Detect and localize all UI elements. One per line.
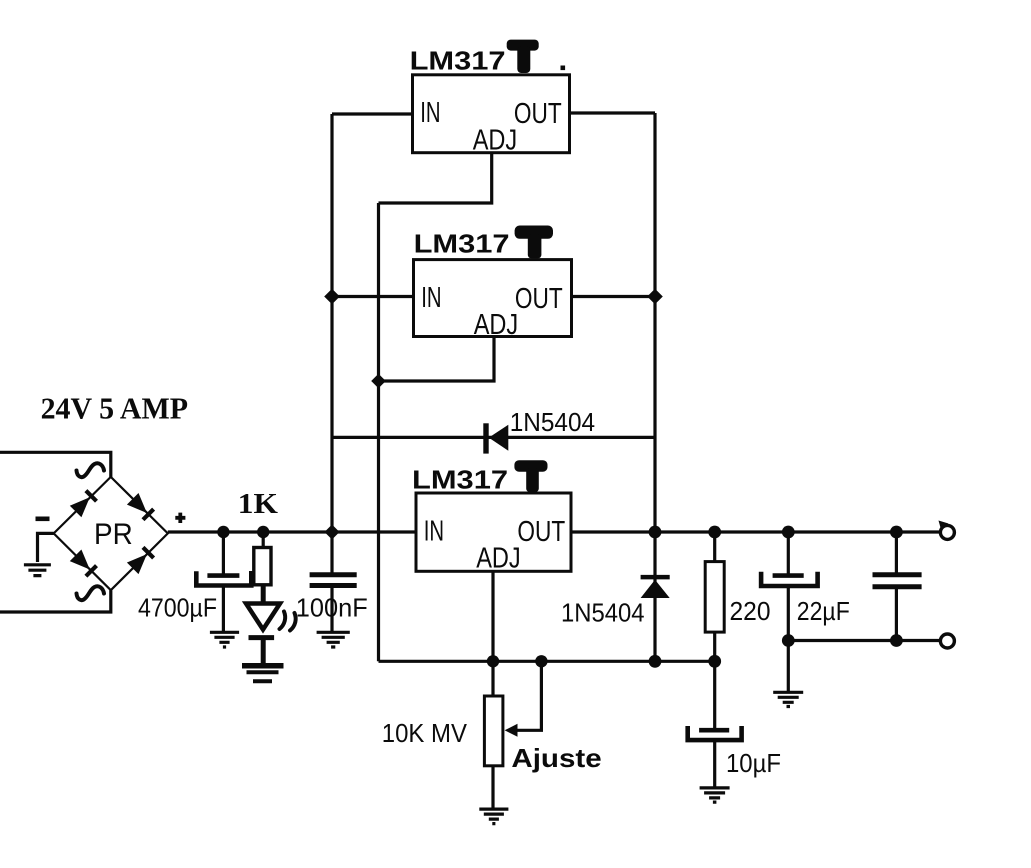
AC squiggle top xyxy=(77,463,105,477)
wire output cap bottom lead xyxy=(895,588,898,641)
resistor R2 220 body xyxy=(705,562,724,633)
icon TO-220 U3 xyxy=(514,460,547,492)
LED arrows xyxy=(280,612,296,631)
wire pot wiper to ADJ rail xyxy=(514,661,541,730)
wire ADJ bottom rail xyxy=(379,660,715,663)
ground (4700uF) xyxy=(210,632,239,647)
wire ADJ trunk vertical xyxy=(377,203,380,661)
wire 22uF top lead xyxy=(787,532,790,574)
wire U1 IN lead xyxy=(332,112,413,115)
diode bridge lower-right xyxy=(127,547,154,574)
potentiometer wiper arrow xyxy=(505,724,518,737)
wire diode D1 row xyxy=(333,436,655,439)
svg-text:100nF: 100nF xyxy=(296,593,368,623)
svg-text:10µF: 10µF xyxy=(726,748,781,778)
diode bridge upper-left xyxy=(70,491,97,518)
potentiometer RV1 10K body xyxy=(484,696,503,766)
capacitor C1 4700uF xyxy=(196,571,251,586)
svg-text:Ajuste: Ajuste xyxy=(511,743,601,773)
wire 22uF ground lead xyxy=(787,641,790,692)
output terminal plus xyxy=(939,521,955,540)
svg-text:ADJ: ADJ xyxy=(473,124,518,156)
wire 10uF bottom lead xyxy=(713,741,716,787)
diode D1 1N5404 horizontal xyxy=(486,423,508,453)
node junction diamonds on trunks xyxy=(324,289,663,540)
svg-text:ADJ: ADJ xyxy=(474,309,519,341)
resistor R1 1K body xyxy=(254,548,271,585)
ground (22uF) xyxy=(773,692,803,706)
label plus xyxy=(175,513,185,523)
svg-text:22µF: 22µF xyxy=(797,596,850,626)
wire 220 bottom lead xyxy=(713,632,716,661)
wire bridge minus lead xyxy=(38,533,54,562)
diode bridge upper-right xyxy=(127,493,154,520)
wire 1K to LED xyxy=(261,585,266,602)
svg-text:OUT: OUT xyxy=(515,283,563,315)
svg-text:220: 220 xyxy=(730,596,771,626)
ground (10uF) xyxy=(700,788,730,802)
ground (100nF) xyxy=(317,632,350,647)
LED D3 xyxy=(246,604,280,638)
node junction dots on minus rail xyxy=(782,634,903,647)
wire pot top lead xyxy=(491,661,494,696)
svg-text:1N5404: 1N5404 xyxy=(561,598,645,628)
capacitor C2 100nF xyxy=(310,575,357,586)
ground (LED) xyxy=(242,666,284,681)
svg-text:10K MV: 10K MV xyxy=(382,718,468,748)
wire 100nF bottom lead xyxy=(330,588,333,633)
wire U1 ADJ lead xyxy=(379,153,492,203)
label minus xyxy=(36,517,50,522)
svg-text:IN: IN xyxy=(420,97,440,129)
capacitor C5 output xyxy=(873,575,922,587)
wire 4700uF bottom lead xyxy=(222,587,225,632)
wire LED to ground xyxy=(261,640,266,664)
wire U2 OUT lead xyxy=(572,295,656,298)
svg-text:LM317: LM317 xyxy=(414,229,510,259)
node junction dots on main rail xyxy=(217,526,903,539)
wire main rail left (bridge + to U3 IN) xyxy=(168,530,416,533)
diode bridge lower-left xyxy=(70,550,97,577)
wire 100nF top lead xyxy=(330,532,333,573)
bridge rectifier PR diamond xyxy=(54,477,168,590)
AC squiggle bottom xyxy=(77,586,105,600)
capacitor C3 22uF xyxy=(761,572,818,586)
svg-text:LM317: LM317 xyxy=(410,46,506,76)
wire pot bottom lead xyxy=(491,766,494,808)
ground (bridge minus) xyxy=(24,565,51,576)
wire U3 ADJ lead xyxy=(491,571,494,661)
svg-text:IN: IN xyxy=(421,282,441,314)
wire IN trunk vertical xyxy=(330,114,333,532)
output terminal minus xyxy=(940,634,954,648)
wire output cap top lead xyxy=(895,532,898,574)
svg-text:IN: IN xyxy=(424,515,444,547)
icon TO-220 U2 xyxy=(515,226,553,259)
wire 10uF top lead xyxy=(713,661,716,728)
svg-text:PR: PR xyxy=(94,518,133,551)
svg-text:OUT: OUT xyxy=(517,516,565,548)
diode D2 1N5404 vertical xyxy=(641,577,670,598)
wire OUT trunk vertical xyxy=(653,113,656,661)
svg-text:LM317: LM317 xyxy=(412,465,508,495)
svg-text:1K: 1K xyxy=(238,488,279,520)
svg-text:1N5404: 1N5404 xyxy=(510,407,595,437)
wire 4700uF top lead xyxy=(222,532,225,574)
icon TO-220 U1 xyxy=(507,40,539,73)
svg-text:24V 5 AMP: 24V 5 AMP xyxy=(41,391,188,426)
ground (pot) xyxy=(479,809,508,824)
svg-text:4700µF: 4700µF xyxy=(138,593,217,623)
op-amp U1 LM317 regulator box xyxy=(413,75,570,153)
node junction dots on ADJ rail xyxy=(487,655,721,668)
op-amp U2 LM317 regulator box xyxy=(414,260,572,337)
svg-text:ADJ: ADJ xyxy=(476,543,521,575)
wire main rail right (U3 OUT to output terminal) xyxy=(571,530,940,533)
wire 22uF bottom lead xyxy=(787,587,790,641)
wire 220 top lead xyxy=(713,532,716,562)
svg-text:OUT: OUT xyxy=(514,98,562,130)
wire U1 OUT lead xyxy=(570,111,655,114)
wire minus output rail xyxy=(788,639,940,642)
wire U2 IN lead xyxy=(332,295,414,298)
wire 1K top lead xyxy=(262,532,265,548)
op-amp U3 LM317 regulator box xyxy=(416,493,571,571)
speck after U1 icon xyxy=(561,66,566,71)
transformer T1 box 24V secondary xyxy=(0,452,111,612)
wire U2 ADJ lead xyxy=(379,337,495,382)
capacitor C4 10uF xyxy=(688,726,742,740)
